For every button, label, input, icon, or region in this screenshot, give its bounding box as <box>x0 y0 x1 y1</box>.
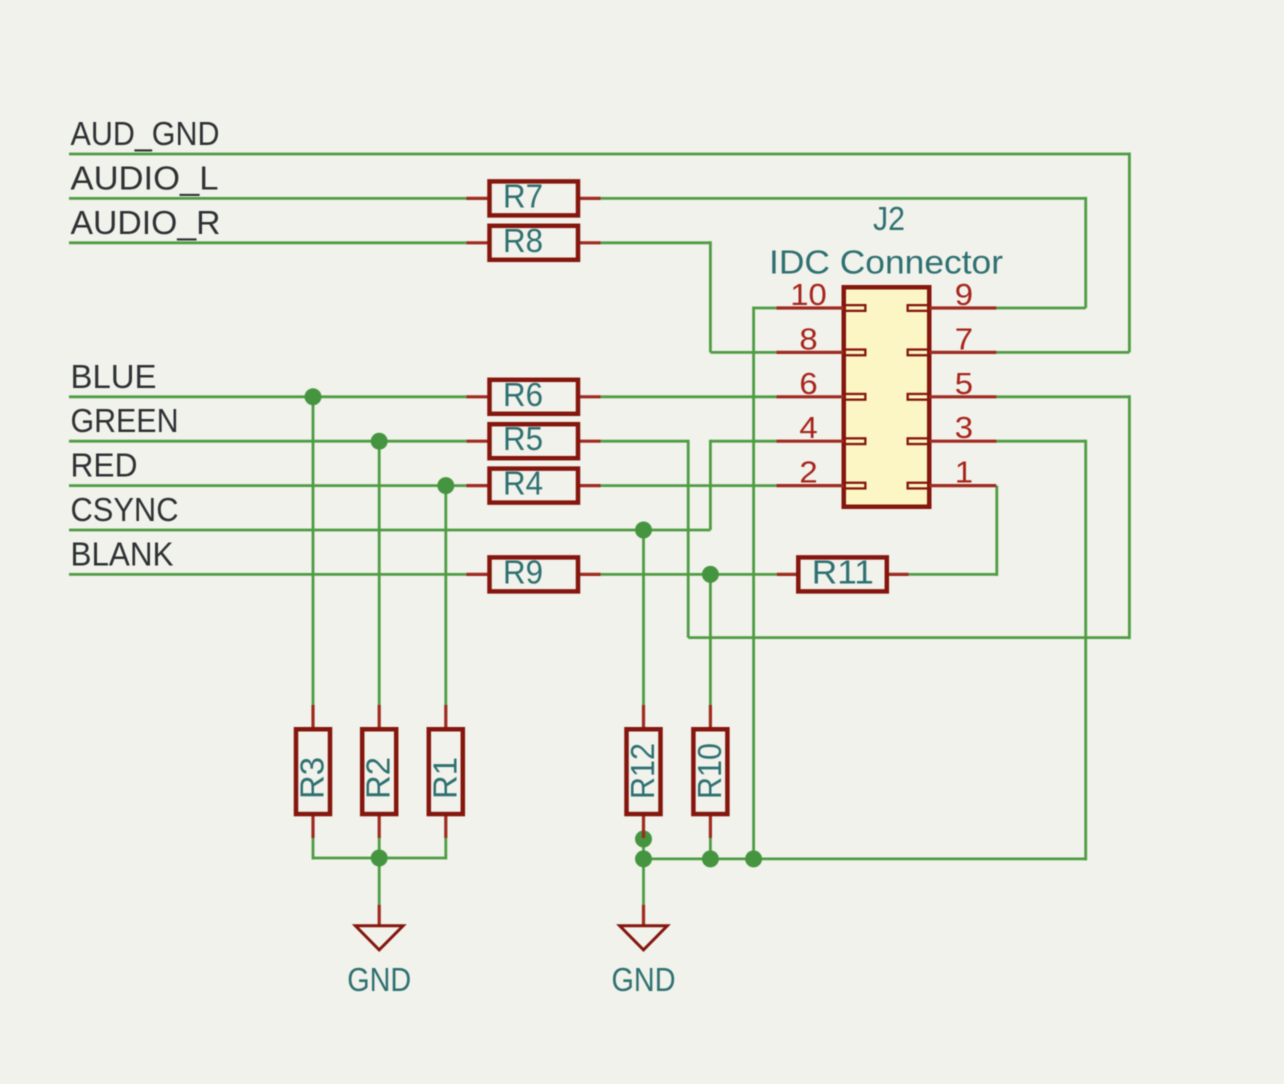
wire pin3 down to gnd bus <box>1084 440 1087 861</box>
svg-text:10: 10 <box>790 277 827 312</box>
J2 pin 6 <box>776 366 865 401</box>
svg-text:R7: R7 <box>503 177 543 214</box>
wire BLANK down to R10 <box>709 573 712 706</box>
svg-text:7: 7 <box>955 321 973 356</box>
J2 pin 9 <box>908 277 997 312</box>
junction RED node <box>437 477 454 494</box>
resistor R7 <box>466 177 600 215</box>
wire pin9 row <box>996 307 1086 310</box>
J2 pin 5 <box>908 366 997 401</box>
svg-text:R3: R3 <box>294 757 331 799</box>
wire right gnd bus <box>644 858 1086 861</box>
svg-text:GND: GND <box>347 961 411 998</box>
J2 pin 1 <box>908 455 997 490</box>
J2 pin 2 <box>776 455 865 490</box>
junction GREEN node <box>371 433 388 450</box>
wire lower return horizontal <box>688 636 1129 639</box>
wire AUDIO_L to R7 <box>69 197 466 200</box>
wire pin8 row <box>710 351 776 354</box>
svg-text:BLUE: BLUE <box>71 358 157 395</box>
ground right GND symbol <box>612 905 676 998</box>
wire R5 right <box>601 440 689 443</box>
svg-text:AUDIO_L: AUDIO_L <box>71 159 219 196</box>
wire pin3 row <box>996 440 1086 443</box>
J2 pin 3 <box>908 410 997 445</box>
svg-text:5: 5 <box>955 366 973 401</box>
wire R2 bottom through bus to gnd <box>378 838 381 905</box>
svg-text:R9: R9 <box>503 553 543 590</box>
wire CSYNC up branch <box>709 440 712 530</box>
wire GREEN to R5 <box>69 440 466 443</box>
wire pin1 down to R11 <box>995 486 998 576</box>
wire R4 to pin2 <box>601 484 777 487</box>
svg-text:RED: RED <box>71 447 138 484</box>
svg-text:IDC Connector: IDC Connector <box>769 244 1003 281</box>
wire AUDIO_L down to pin9 <box>1084 197 1087 308</box>
resistor R6 <box>466 376 600 414</box>
J2 pin 10 <box>776 277 865 312</box>
svg-text:R5: R5 <box>503 420 543 457</box>
svg-text:R2: R2 <box>360 757 397 799</box>
wire R12 bottom through bus to gnd <box>642 838 645 905</box>
svg-text:GND: GND <box>612 961 676 998</box>
connector J2 body <box>769 200 1003 507</box>
wire CSYNC horizontal <box>69 529 710 532</box>
svg-text:4: 4 <box>799 410 817 445</box>
wire R7 to corner <box>601 197 1086 200</box>
wire R1 bottom to bus <box>444 838 447 860</box>
wire pin7 row <box>996 351 1129 354</box>
svg-text:1: 1 <box>955 455 973 490</box>
wire pin10 down to gnd bus <box>752 307 755 859</box>
wire AUDIO_R to R8 <box>69 241 466 244</box>
wire R11 to corner <box>909 573 997 576</box>
wire R8 right <box>601 241 711 244</box>
svg-text:8: 8 <box>799 321 817 356</box>
svg-text:R1: R1 <box>426 757 463 799</box>
svg-text:R10: R10 <box>691 743 728 799</box>
resistor R11 <box>777 553 909 591</box>
junction CSYNC node <box>635 522 652 539</box>
svg-text:J2: J2 <box>873 200 905 237</box>
J2 pin 4 <box>776 410 865 445</box>
wire BLUE down to R3 <box>312 395 315 706</box>
resistor R1 <box>426 705 463 838</box>
junction right gnd bus at R10 <box>702 850 719 867</box>
J2 pin 7 <box>908 321 997 356</box>
junction right gnd bus at pin10 column <box>745 850 762 867</box>
resistor R12 <box>624 705 661 838</box>
junction R12 pin <box>635 831 652 848</box>
svg-text:BLANK: BLANK <box>71 535 174 572</box>
svg-text:AUDIO_R: AUDIO_R <box>71 204 221 241</box>
svg-text:9: 9 <box>955 277 973 312</box>
wire R6 to pin6 <box>601 395 777 398</box>
resistor R5 <box>466 420 600 458</box>
svg-text:R6: R6 <box>503 376 543 413</box>
J2 pin 8 <box>776 321 865 356</box>
svg-text:6: 6 <box>799 366 817 401</box>
resistor R10 <box>691 705 728 838</box>
svg-text:2: 2 <box>799 455 817 490</box>
wire left gnd bus <box>313 857 446 860</box>
wire GREEN down to R2 <box>378 440 381 706</box>
wire R5 down to return <box>687 440 690 638</box>
junction BLUE node <box>305 388 322 405</box>
svg-text:R11: R11 <box>812 553 874 590</box>
wire AUD_GND horizontal <box>69 153 1129 156</box>
resistor R2 <box>360 705 397 838</box>
wire BLANK to R9 <box>69 573 466 576</box>
wire CSYNC down to R12 <box>642 529 645 707</box>
wire pin5 row <box>996 395 1129 398</box>
resistor R8 <box>466 222 600 260</box>
resistor R4 <box>466 465 600 503</box>
resistor R9 <box>466 553 600 591</box>
wire pin5 down to return <box>1128 395 1131 639</box>
svg-text:GREEN: GREEN <box>71 402 179 439</box>
svg-text:CSYNC: CSYNC <box>71 491 179 528</box>
svg-text:R4: R4 <box>503 465 543 502</box>
wire R10 bottom to bus <box>709 838 712 860</box>
junction BLANK node <box>702 566 719 583</box>
svg-text:R8: R8 <box>503 222 543 259</box>
wire RED down to R1 <box>444 484 447 706</box>
svg-text:AUD_GND: AUD_GND <box>71 115 220 152</box>
ground left GND symbol <box>347 905 411 998</box>
wire R3 bottom to bus <box>312 838 315 860</box>
junction left gnd bus <box>371 850 388 867</box>
resistor R3 <box>294 705 331 838</box>
wire R9 to R11 <box>601 573 777 576</box>
svg-text:R12: R12 <box>624 743 661 799</box>
junction right gnd bus at R12 <box>635 850 652 867</box>
wire R8 down to pin8 <box>709 241 712 352</box>
svg-text:3: 3 <box>955 410 973 445</box>
wire BLUE to R6 <box>69 395 466 398</box>
wire RED to R4 <box>69 484 466 487</box>
wire pin10 row <box>754 307 777 310</box>
wire csync branch to pin4 <box>710 440 776 443</box>
wire AUD_GND down to pin7 <box>1128 153 1131 353</box>
